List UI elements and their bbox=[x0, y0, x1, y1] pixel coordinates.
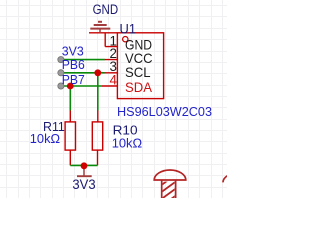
svg-text:SCL: SCL bbox=[125, 65, 151, 80]
svg-text:PB6: PB6 bbox=[62, 57, 85, 72]
svg-text:HS96L03W2C03: HS96L03W2C03 bbox=[117, 104, 212, 119]
svg-text:10kΩ: 10kΩ bbox=[112, 136, 143, 151]
svg-text:PB7: PB7 bbox=[62, 72, 85, 87]
svg-text:3V3: 3V3 bbox=[72, 176, 95, 192]
svg-text:VCC: VCC bbox=[125, 51, 153, 66]
svg-text:10kΩ: 10kΩ bbox=[30, 131, 61, 146]
svg-text:GND: GND bbox=[93, 2, 119, 17]
svg-text:4: 4 bbox=[109, 73, 117, 88]
svg-text:U1: U1 bbox=[120, 21, 137, 36]
svg-text:SDA: SDA bbox=[125, 80, 153, 95]
